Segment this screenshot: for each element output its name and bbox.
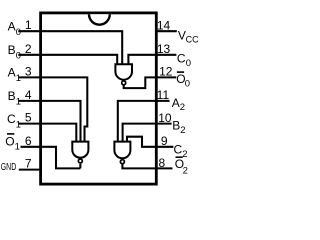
svg-text:7: 7 (25, 157, 32, 171)
pin 2 wire B0 (to gate G1 left input) (18, 55, 117, 65)
pin 4 wire B1 (to gate G2 middle input) (18, 101, 80, 143)
NAND gate G2 (A1,B1,C1 -> O1-bar), pointing down (72, 142, 88, 158)
svg-text:A: A (8, 66, 16, 80)
svg-text:2: 2 (180, 102, 185, 113)
NAND gate G1 (A0,B0,C0 -> O0-bar), pointing down (115, 64, 132, 79)
svg-text:1: 1 (15, 141, 20, 152)
svg-text:GND: GND (1, 161, 17, 173)
svg-text:4: 4 (25, 88, 32, 102)
svg-text:5: 5 (25, 111, 32, 125)
pin 1 wire A0 (to gate G1 middle input) (18, 31, 122, 65)
svg-text:C: C (7, 112, 16, 126)
svg-text:13: 13 (157, 42, 171, 56)
NAND gate G3 (A2,B2,C2 -> O2-bar), pointing down (114, 142, 130, 159)
svg-text:10: 10 (158, 111, 172, 125)
svg-text:12: 12 (159, 65, 173, 79)
pin 13 wire C0 (to gate G1 right input) (128, 55, 176, 65)
svg-text:0: 0 (16, 27, 21, 38)
svg-text:11: 11 (157, 88, 170, 102)
bubble G1 (122, 81, 126, 85)
svg-text:C: C (177, 52, 186, 66)
pin 14 wire VCC (156, 30, 177, 32)
svg-text:1: 1 (16, 97, 21, 108)
pin 8 wire O2-bar (from gate G3 output bubble) (122, 164, 172, 168)
IC body U1 (14-pin DIP outline) (41, 13, 157, 184)
svg-text:2: 2 (180, 125, 185, 136)
svg-text:9: 9 (161, 134, 168, 148)
svg-text:2: 2 (25, 42, 32, 56)
svg-text:3: 3 (25, 64, 32, 78)
pin 5 wire C1 (to gate G2 left input) (18, 124, 76, 143)
svg-text:1: 1 (16, 119, 21, 130)
pin 7 wire GND (19, 169, 41, 171)
svg-text:0: 0 (186, 58, 191, 69)
svg-text:A: A (8, 20, 16, 34)
notch (index mark at top center) (89, 14, 110, 24)
svg-text:1: 1 (16, 73, 21, 84)
svg-text:B: B (172, 119, 180, 133)
svg-text:8: 8 (159, 156, 166, 170)
wire G2 bubble to output elbow (79, 164, 81, 169)
bubble G2 (78, 159, 82, 163)
svg-text:O: O (5, 135, 14, 149)
bubble G3 (120, 160, 124, 164)
svg-text:0: 0 (16, 51, 21, 62)
svg-text:6: 6 (25, 134, 32, 148)
svg-text:B: B (8, 43, 16, 57)
pin 6 wire O1-bar (from gate G2 output bubble) (21, 147, 81, 169)
svg-text:A: A (172, 96, 180, 110)
svg-text:C: C (174, 142, 183, 156)
pin 11 wire A2 (to gate G3 left input) (118, 101, 170, 143)
pin 12 wire O0-bar (from gate G1 output bubble) (124, 77, 177, 88)
svg-text:0: 0 (185, 78, 190, 89)
svg-text:2: 2 (183, 166, 188, 177)
svg-text:CC: CC (186, 35, 199, 45)
pin 3 wire A1 (to gate G2 right input, with jog) (18, 77, 87, 142)
pin 9 wire C2 (bridge to gate G3 right input) (127, 137, 173, 147)
svg-text:1: 1 (25, 18, 32, 32)
svg-text:B: B (8, 89, 16, 103)
svg-text:14: 14 (157, 18, 171, 32)
pin 10 wire B2 (to gate G3 middle input) (123, 124, 172, 143)
